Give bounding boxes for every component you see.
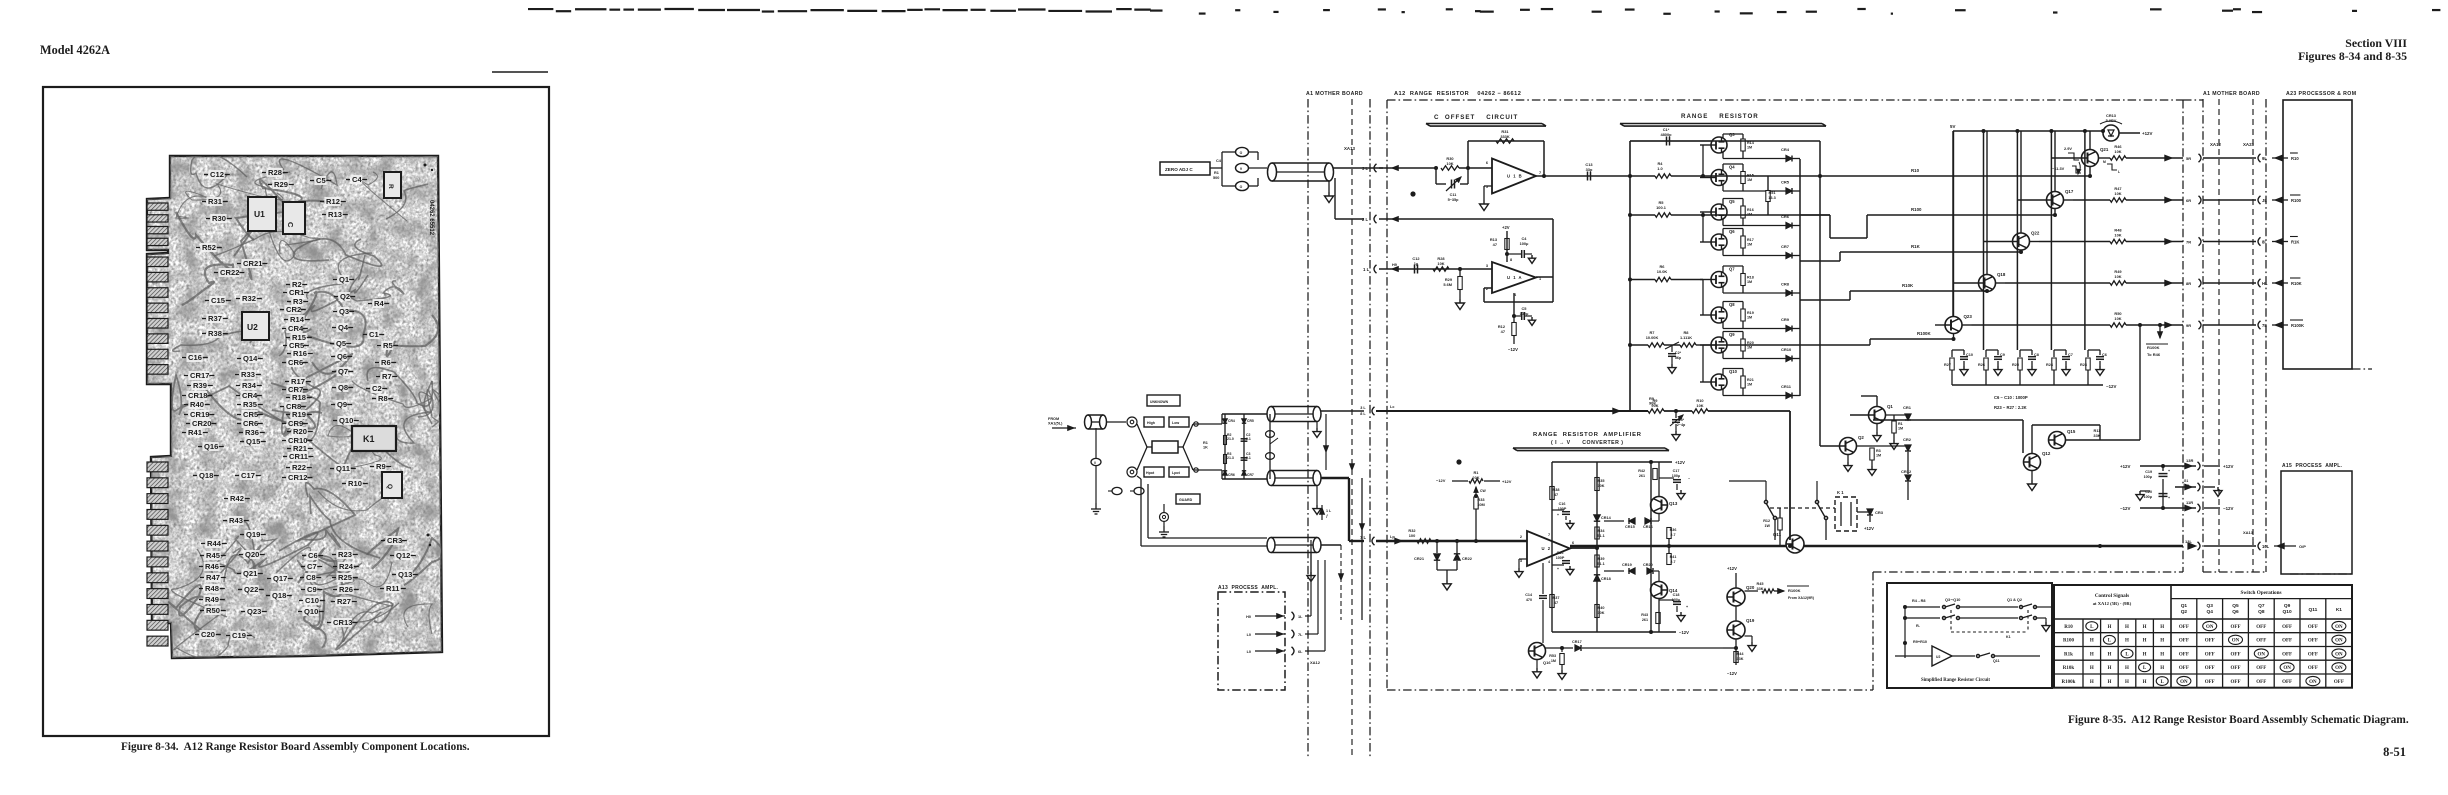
svg-text:C2: C2 [372, 384, 382, 393]
diode CR7 out wire [1792, 255, 1800, 257]
Q15 Q12 link [2040, 439, 2049, 441]
diode CR11 [1786, 393, 1792, 399]
svg-text:R45: R45 [1757, 582, 1764, 586]
svg-text:20K: 20K [1472, 475, 1479, 480]
high box [1144, 417, 1164, 427]
Q4 drain lead [1722, 164, 1724, 171]
svg-text:R31: R31 [208, 197, 223, 206]
svg-text:H: H [2143, 625, 2147, 630]
svg-text:OFF: OFF [2205, 680, 2215, 685]
svg-text:R7: R7 [382, 372, 392, 381]
simpl U2 wires [1895, 655, 1932, 657]
svg-text:7: 7 [1548, 533, 1550, 537]
row 9R wire [1972, 324, 2111, 326]
svg-text:R100: R100 [2291, 198, 2302, 203]
row 8R mother crossing [2203, 282, 2256, 284]
gate link Q3 Q4 [1702, 145, 1704, 178]
svg-text:Q13: Q13 [398, 570, 412, 579]
svg-text:−12V: −12V [1436, 478, 1446, 483]
Q3 drain lead [1722, 134, 1724, 138]
capacitor C4 opamp [1507, 253, 1521, 255]
7L wire into A12 [1376, 540, 1408, 542]
transistor Q17 [2047, 192, 2064, 209]
svg-text:1.111K: 1.111K [1680, 335, 1692, 340]
svg-text:R21: R21 [1747, 378, 1754, 382]
svg-text:CR15: CR15 [1625, 525, 1635, 529]
svg-text:CR3: CR3 [1875, 510, 1884, 515]
rr amplifier bracket [1513, 447, 1665, 449]
main line junction R12 [1788, 544, 1792, 548]
svg-text:10K: 10K [1446, 161, 1453, 166]
resistor R5 [1655, 213, 1671, 217]
wire R16 to diode [1743, 225, 1786, 227]
svg-text:Q17: Q17 [273, 574, 287, 583]
svg-text:H: H [2125, 680, 2129, 685]
Q22 collector lead [2020, 131, 2022, 233]
svg-text:13.3: 13.3 [1768, 196, 1775, 200]
R29 ground [1459, 290, 1461, 299]
svg-text:R34: R34 [242, 381, 257, 390]
svg-text:R9+R10: R9+R10 [1913, 640, 1927, 644]
svg-text:R18: R18 [1747, 276, 1754, 280]
svg-text:9R: 9R [2186, 323, 2191, 328]
svg-text:10K: 10K [2114, 149, 2121, 154]
resistor R37 [1550, 595, 1554, 608]
svg-text:R1K: R1K [1911, 244, 1921, 249]
svg-text:R51: R51 [1769, 191, 1776, 195]
svg-text:R43: R43 [1641, 613, 1648, 617]
svg-text:U 1 A: U 1 A [1507, 275, 1523, 280]
svg-text:C6 − C10 : 1000P: C6 − C10 : 1000P [1994, 395, 2028, 400]
svg-text:OFF: OFF [2231, 666, 2241, 671]
svg-text:47: 47 [1501, 329, 1505, 334]
svg-text:A1 MOTHER BOARD: A1 MOTHER BOARD [1306, 91, 1363, 97]
svg-text:C17: C17 [241, 471, 255, 480]
svg-text:H: H [2090, 639, 2094, 644]
Q23 emitter riser [1953, 334, 1955, 340]
svg-text:470: 470 [1526, 598, 1532, 602]
svg-text:XA23: XA23 [2243, 142, 2255, 147]
svg-text:Q23: Q23 [1964, 314, 1973, 319]
svg-text:Simplified Range Resistor Circ: Simplified Range Resistor Circuit [1921, 678, 1990, 683]
svg-text:R12: R12 [326, 197, 340, 206]
svg-text:−12V: −12V [2223, 506, 2233, 511]
svg-text:Q9: Q9 [1729, 332, 1735, 337]
svg-text:−12V: −12V [2120, 506, 2130, 511]
svg-text:R100K: R100K [1917, 331, 1931, 336]
right mother board dashdot right [2265, 99, 2267, 572]
svg-text:C3*: C3* [1678, 418, 1685, 422]
svg-text:Q15: Q15 [2067, 429, 2076, 434]
U1A pin4 lower [1513, 293, 1515, 315]
svg-text:R100K: R100K [1788, 588, 1801, 593]
U2 pin3 ground [1519, 558, 1527, 560]
A12 box right edge [2182, 100, 2184, 572]
svg-text:C OFFSET CIRCUIT: C OFFSET CIRCUIT [1434, 114, 1518, 121]
svg-text:Q4: Q4 [2206, 609, 2213, 615]
svg-text:R14: R14 [290, 315, 305, 324]
zero adj c box [1160, 162, 1210, 175]
svg-text:CR12: CR12 [1901, 469, 1912, 474]
svg-text:Q19: Q19 [1746, 618, 1755, 623]
svg-text:CR4: CR4 [1781, 147, 1790, 152]
Q21 collector lead [2089, 131, 2091, 150]
resistor R41 [1667, 554, 1671, 565]
svg-text:1M: 1M [1898, 427, 1903, 431]
resistor R33 [1474, 497, 1478, 509]
svg-text:51.1: 51.1 [1597, 562, 1604, 566]
svg-text:R19: R19 [292, 410, 306, 419]
svg-text:R23 − R27 : 2.2K: R23 − R27 : 2.2K [1994, 405, 2027, 410]
capacitor C17 [1659, 477, 1674, 479]
diode CR1 [1886, 414, 1906, 416]
svg-text:R25: R25 [2012, 363, 2019, 367]
svg-text:C8: C8 [306, 573, 316, 582]
wires circles to cable [1222, 151, 1235, 153]
Q1 emitter ground [1876, 424, 1878, 433]
svg-text:R4→R8: R4→R8 [1912, 599, 1926, 603]
7L main wire [1408, 540, 1527, 542]
svg-text:100μ: 100μ [1672, 474, 1681, 478]
pcb R1 box top right [384, 172, 401, 198]
capacitor C16 [1552, 509, 1564, 511]
range resistor title bracket [1620, 123, 1822, 125]
zero adj shielded cable [1268, 163, 1277, 181]
Q18 emitter riser [1986, 290, 1988, 293]
svg-text:Q18: Q18 [199, 471, 213, 480]
svg-text:O: O [1240, 185, 1243, 189]
svg-text:1M: 1M [1747, 243, 1752, 247]
range line R10 [1820, 175, 2090, 177]
svg-text:R24: R24 [2046, 363, 2054, 367]
pcb IC U1 box [248, 197, 276, 231]
range bus x1800 [1799, 159, 1801, 396]
resistor R40 [1595, 605, 1599, 618]
Q1 base feed [1850, 414, 1869, 416]
svg-text:0: 0 [1094, 461, 1096, 465]
Q21 emitter riser [2089, 167, 2091, 177]
svg-text:Q5: Q5 [2232, 603, 2239, 609]
transistor Q18 [1979, 275, 1996, 292]
svg-text:OFF: OFF [2179, 639, 2189, 644]
svg-text:R1k: R1k [2064, 652, 2073, 657]
svg-text:Q18: Q18 [1997, 272, 2006, 277]
svg-text:R18: R18 [292, 393, 306, 402]
resistor R6 [1655, 277, 1671, 281]
svg-text:CR6: CR6 [288, 358, 303, 367]
resistor R35 [1595, 478, 1599, 491]
amp net right vertical [1650, 462, 1652, 632]
capacitor C12 [1414, 265, 1416, 274]
svg-text:CR11: CR11 [289, 452, 309, 461]
svg-text:R28: R28 [268, 168, 282, 177]
svg-text:R100: R100 [2063, 639, 2075, 644]
resistor R17 [1741, 236, 1745, 248]
svg-text:R53: R53 [1549, 654, 1556, 658]
5V rail left drop [1952, 131, 1954, 316]
connector left 9L [2258, 154, 2261, 162]
svg-text:ON: ON [2232, 639, 2240, 644]
svg-text:Q6: Q6 [337, 352, 347, 361]
snubber R25 C8 [2019, 350, 2021, 357]
diode CR5 [1786, 188, 1792, 194]
resistor R1 input box [1152, 441, 1178, 453]
cable shield ground [1328, 181, 1330, 192]
svg-text:OFF: OFF [2256, 625, 2266, 630]
svg-text:XA12: XA12 [1310, 660, 1321, 665]
svg-text:R6: R6 [381, 358, 391, 367]
resistor R48 [2110, 239, 2126, 243]
svg-text:CR6: CR6 [243, 419, 258, 428]
svg-text:R34: R34 [1598, 529, 1606, 533]
scan noise dashes top [528, 8, 553, 10]
svg-text:RANGE RESISTOR AMPLIFIER: RANGE RESISTOR AMPLIFIER [1533, 432, 1642, 438]
resistor R43 [1656, 613, 1660, 624]
svg-text:R25: R25 [338, 573, 353, 582]
resistor R4 [1655, 174, 1671, 178]
svg-text:6L: 6L [1298, 650, 1303, 654]
diode CR11 out wire [1792, 395, 1800, 397]
zero adj wiring [1210, 167, 1222, 169]
svg-text:UNKNOWN: UNKNOWN [1150, 400, 1169, 404]
svg-text:C9: C9 [307, 585, 317, 594]
svg-text:1M: 1M [1747, 316, 1752, 320]
svg-text:M: M [2103, 160, 2106, 164]
junction dot rail top [1628, 174, 1632, 178]
transistor Q2 [1840, 438, 1857, 455]
svg-text:ZERO ADJ C: ZERO ADJ C [1165, 167, 1193, 172]
svg-text:R36: R36 [245, 428, 259, 437]
svg-text:H: H [2143, 652, 2147, 657]
svg-text:U 2: U 2 [1542, 546, 1552, 551]
svg-text:CR11: CR11 [1781, 384, 1792, 389]
svg-text:R27: R27 [337, 597, 351, 606]
svg-text:U2: U2 [247, 322, 258, 332]
cable 1 ground [1316, 421, 1318, 428]
svg-text:R1: R1 [1898, 422, 1903, 426]
svg-text:Q2: Q2 [2181, 609, 2188, 615]
network vertical 1 [1224, 414, 1226, 479]
svg-text:51.1: 51.1 [1597, 534, 1604, 538]
svg-text:Q17: Q17 [2065, 189, 2074, 194]
svg-text:Low: Low [1172, 421, 1179, 425]
U1A feedback loop [1536, 276, 1553, 278]
resistor R19 [1741, 309, 1745, 321]
resistor R31 [1496, 139, 1514, 143]
svg-text:R10k: R10k [2063, 666, 2075, 671]
svg-text:GUARD: GUARD [1179, 498, 1193, 502]
svg-text:C19: C19 [2145, 470, 2152, 474]
8L wire thick [1376, 410, 1648, 412]
resistor R14 [1741, 139, 1745, 151]
CR2 to CR12 wire [1907, 452, 1909, 474]
svg-text:C15: C15 [1557, 551, 1564, 555]
main output line left [1570, 545, 1786, 547]
svg-text:OFF: OFF [2282, 639, 2292, 644]
svg-text:+12V: +12V [1675, 460, 1685, 465]
svg-text:H: H [2125, 625, 2129, 630]
diode CR4 out wire [1792, 158, 1800, 160]
svg-text:CR5: CR5 [1781, 180, 1790, 185]
input merge wires [1183, 424, 1193, 447]
svg-text:100: 100 [1409, 533, 1416, 538]
svg-text:CR4: CR4 [1228, 419, 1235, 423]
row 7R wire [2039, 241, 2110, 243]
simpl U2 triangle [1932, 646, 1952, 666]
resistor R28 [1433, 267, 1449, 271]
wire R15 to diode [1743, 190, 1786, 192]
svg-text:Q10: Q10 [1729, 369, 1738, 374]
svg-text:7: 7 [1539, 171, 1541, 175]
svg-text:R39: R39 [193, 381, 207, 390]
svg-text:100μ: 100μ [2144, 495, 2153, 499]
svg-text:L: L [2118, 170, 2120, 174]
svg-text:Figures 8-34 and 8-35: Figures 8-34 and 8-35 [2298, 49, 2407, 63]
svg-text:OFF: OFF [2205, 639, 2215, 644]
svg-text:Q8: Q8 [2258, 609, 2265, 615]
K1 relay coil box [1835, 497, 1857, 531]
svg-text:Q19: Q19 [246, 530, 260, 539]
gate link Q7 Q8 [1702, 280, 1704, 316]
connector left 8L [2258, 237, 2261, 245]
3L 8L connector [1372, 407, 1375, 415]
svg-text:H: H [2125, 666, 2129, 671]
svg-text:+: + [2168, 469, 2170, 473]
svg-text:OFF: OFF [2179, 666, 2189, 671]
svg-text:A12 RANGE RESISTOR 04262: A12 RANGE RESISTOR 04262 − 86612 [1394, 91, 1521, 97]
wire R21 to diode [1743, 395, 1786, 397]
svg-text:R10K: R10K [1902, 283, 1914, 288]
svg-text:R13: R13 [328, 210, 342, 219]
svg-text:at XA12 (5R) - (9R): at XA12 (5R) - (9R) [2093, 601, 2132, 606]
relay coil feed from CR12 [1845, 497, 1847, 500]
amp right rail [1668, 545, 1670, 547]
resistor R9 [1648, 409, 1664, 413]
C3 ground [1675, 424, 1677, 431]
svg-text:XA1(5L): XA1(5L) [1048, 422, 1063, 426]
resistor R21 [1741, 376, 1745, 388]
svg-text:H: H [2160, 666, 2164, 671]
13L crossing wires [2204, 545, 2256, 547]
svg-text:10K: 10K [1437, 261, 1444, 266]
connector left 7L [2258, 321, 2261, 329]
svg-text:R10: R10 [1911, 168, 1920, 173]
op-amp U1A [1492, 262, 1536, 293]
diode CR18 [1594, 575, 1600, 581]
svg-text:C15: C15 [211, 296, 226, 305]
svg-text:C19: C19 [232, 631, 246, 640]
mother board dashdot line right [1369, 99, 1371, 757]
svg-text:R100k: R100k [2062, 680, 2076, 685]
Q18 emitter wire to row [1996, 282, 2006, 284]
diode CR2 [1872, 445, 1905, 447]
R11 riser [2139, 325, 2141, 440]
svg-text:XA12: XA12 [2210, 142, 2222, 147]
range bus mid R51 [1767, 176, 1769, 215]
svg-text:Q14: Q14 [243, 354, 258, 363]
transistor Q1 [1869, 407, 1886, 424]
transistor Q9 [1711, 337, 1727, 353]
svg-text:1M: 1M [1747, 146, 1752, 150]
wire R10 right [1708, 410, 1790, 412]
range bus x1820 [1819, 141, 1821, 330]
svg-text:+: + [2168, 496, 2170, 500]
range line R100K [1703, 344, 1870, 346]
svg-text:CR21: CR21 [243, 259, 263, 268]
svg-text:Q22: Q22 [244, 585, 258, 594]
svg-text:H: H [2160, 639, 2164, 644]
wire R18 to diode [1743, 292, 1786, 294]
amp to main line [1668, 546, 1670, 565]
K1 wire from koil [1728, 462, 1730, 481]
svg-text:OFF: OFF [2231, 680, 2241, 685]
diode CR8 out wire [1792, 292, 1800, 294]
svg-text:R40: R40 [1598, 606, 1605, 610]
svg-text:H: H [2107, 680, 2111, 685]
svg-text:04262 65512: 04262 65512 [428, 200, 434, 236]
resistor R8 [1680, 343, 1696, 347]
svg-text:Q: Q [386, 484, 393, 489]
svg-text:ON: ON [2309, 680, 2317, 685]
capacitor C13 [1587, 172, 1589, 181]
svg-text:Q18: Q18 [272, 591, 286, 600]
svg-text:CR18: CR18 [1601, 577, 1611, 581]
diodes CR4 CR5 input [1223, 419, 1227, 423]
svg-text:10.0K: 10.0K [1657, 269, 1668, 274]
svg-text:C7: C7 [307, 562, 317, 571]
snubber R23 C6 [2087, 350, 2089, 357]
cable 2 ground [1316, 486, 1318, 505]
simpl gnd right [2045, 618, 2047, 622]
svg-text:8: 8 [1510, 258, 1512, 262]
svg-text:C18: C18 [1673, 593, 1680, 597]
transistor Q15 [2049, 432, 2066, 449]
range left rail [1629, 141, 1631, 411]
connector circle C [1236, 181, 1249, 190]
svg-text:8-51: 8-51 [2383, 745, 2406, 759]
Q10 source lead [1722, 389, 1724, 396]
unknown box [1147, 395, 1180, 406]
resistor R36 [1667, 528, 1671, 539]
svg-text:9: 9 [1240, 167, 1242, 171]
A13 box [1218, 592, 1285, 690]
junction dot U1B input [1466, 166, 1470, 170]
resistor R15 [1741, 172, 1745, 184]
C2 ground [1671, 357, 1673, 364]
Q4 source lead [1722, 185, 1724, 192]
svg-text:Q15: Q15 [246, 437, 261, 446]
resistor R18 [1741, 274, 1745, 286]
svg-text:K1: K1 [2006, 635, 2011, 639]
svg-text:3: 3 [1486, 264, 1488, 268]
svg-text:3 L: 3 L [1360, 406, 1366, 410]
Q13 collector wire [1658, 462, 1660, 497]
svg-text:R23: R23 [338, 550, 352, 559]
svg-text:XA13: XA13 [2243, 530, 2254, 535]
svg-text:Hpot: Hpot [1146, 471, 1155, 475]
Q21 emitter wire to row [2099, 157, 2109, 159]
svg-text:21.3: 21.3 [1227, 456, 1234, 460]
svg-text:Q5: Q5 [1729, 199, 1735, 204]
K1 mechanical link dashed [1770, 507, 1835, 509]
svg-text:2: 2 [1520, 535, 1522, 539]
hpot connector circle [1127, 467, 1137, 477]
svg-text:R4: R4 [374, 299, 384, 308]
svg-text:8 L: 8 L [1360, 412, 1366, 416]
wire to U2 via vertical [1789, 411, 1791, 540]
svg-text:R22: R22 [292, 463, 306, 472]
svg-text:Q7: Q7 [2258, 603, 2265, 609]
